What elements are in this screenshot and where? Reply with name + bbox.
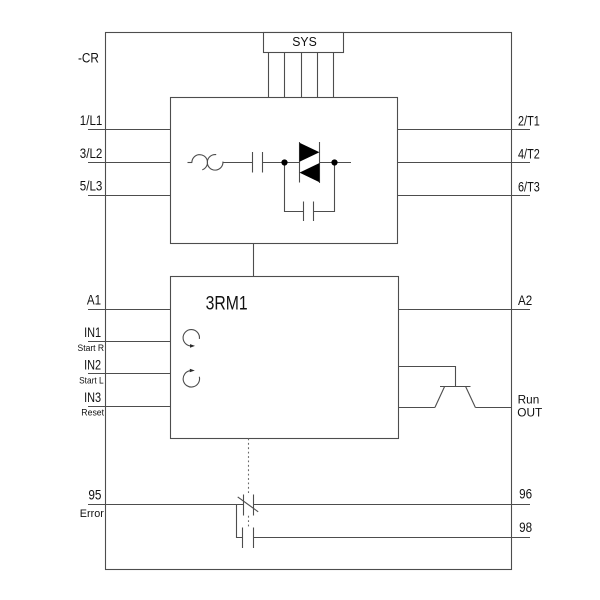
NC contact plate right [253, 495, 255, 516]
wire CT to capacitor [223, 162, 253, 164]
svg-text:98: 98 [519, 520, 532, 535]
terminal wire 2/T1 [398, 129, 531, 131]
svg-text:1/L1: 1/L1 [80, 113, 103, 128]
capacitor C1 plate right [262, 152, 264, 173]
SYS bus wire 4 [317, 53, 319, 98]
SYS bus wire 1 [268, 53, 270, 98]
terminal wire 96 [254, 504, 531, 506]
NO contact plate left [242, 528, 244, 549]
terminal wire IN2 [88, 373, 171, 375]
svg-text:Start R: Start R [78, 343, 105, 353]
branch wire to NO contact [237, 505, 243, 538]
svg-text:Start L: Start L [79, 376, 104, 386]
transistor Q1 right leg [466, 387, 476, 408]
Run OUT wire [475, 407, 511, 409]
snubber right wire [314, 163, 335, 212]
svg-text:-CR: -CR [78, 51, 99, 66]
NC contact plate left [243, 495, 245, 516]
svg-text:6/T3: 6/T3 [518, 180, 540, 195]
triac lower thyristor triangle [300, 163, 320, 182]
terminal wire 98 [254, 537, 531, 539]
terminal wire 6/T3 [398, 195, 531, 197]
terminal wire 95 [88, 504, 244, 506]
wire triac to stub right [320, 162, 352, 164]
actuation dashed link lower [248, 516, 250, 527]
terminal wire 5/L3 [88, 195, 171, 197]
3RM1 control box [171, 277, 399, 439]
capacitor C1 plate left [252, 152, 254, 173]
svg-text:Run: Run [518, 395, 540, 407]
terminal wire 1/L1 [88, 129, 171, 131]
junction node right [331, 159, 337, 165]
svg-text:4/T2: 4/T2 [518, 147, 540, 162]
terminal wire 4/T2 [398, 162, 531, 164]
rotation arrow right arc [183, 330, 199, 346]
SYS block [264, 33, 344, 53]
svg-text:A1: A1 [87, 293, 101, 308]
svg-text:5/L3: 5/L3 [80, 179, 103, 194]
svg-text:IN3: IN3 [84, 390, 101, 405]
NO contact plate right [253, 528, 255, 549]
triac upper thyristor triangle [300, 143, 320, 162]
svg-text:A2: A2 [518, 293, 532, 308]
rotation arrow left head [190, 369, 195, 372]
svg-text:Error: Error [80, 508, 104, 520]
svg-text:IN1: IN1 [84, 325, 101, 340]
current transformer interlocked ring 2 [207, 155, 223, 171]
svg-text:96: 96 [519, 487, 532, 502]
actuation dashed link [248, 439, 250, 494]
svg-text:2/T1: 2/T1 [518, 114, 540, 129]
svg-text:IN2: IN2 [84, 358, 101, 373]
terminal wire IN3 [88, 406, 171, 408]
terminal wire A1 [88, 309, 171, 311]
terminal wire A2 [399, 309, 531, 311]
svg-text:Reset: Reset [81, 408, 104, 418]
snubber capacitor plate left [303, 202, 305, 222]
transistor Q1 left leg [435, 387, 445, 408]
svg-text:3/L2: 3/L2 [80, 146, 103, 161]
svg-text:SYS: SYS [292, 35, 317, 49]
terminal wire 3/L2 [88, 162, 171, 164]
transistor Q1 top bar [440, 386, 471, 388]
triac right bar [319, 142, 321, 183]
wire capacitor to triac [263, 162, 300, 164]
NC contact slash [238, 497, 259, 512]
svg-text:OUT: OUT [517, 408, 542, 420]
snubber capacitor plate right [313, 202, 315, 222]
rotation arrow right head [190, 344, 195, 348]
current transformer lead-in wire [188, 162, 193, 164]
current transformer interlocked ring 1 [192, 155, 208, 170]
transistor emitter wire to box [399, 407, 435, 409]
junction node left [281, 159, 287, 165]
SYS bus wire 3 [301, 53, 303, 98]
snubber left wire [285, 163, 304, 212]
rotation arrow left arc [183, 371, 199, 387]
svg-text:95: 95 [88, 488, 101, 503]
SYS bus wire 2 [284, 53, 286, 98]
outer border frame [106, 33, 512, 570]
transistor collector branch wire [399, 367, 456, 387]
triac left bar [299, 142, 301, 183]
power section box [171, 98, 398, 244]
connector power box to 3RM1 box [253, 244, 255, 277]
svg-text:3RM1: 3RM1 [206, 293, 248, 315]
SYS bus wire 5 [333, 53, 335, 98]
terminal wire IN1 [88, 341, 171, 343]
